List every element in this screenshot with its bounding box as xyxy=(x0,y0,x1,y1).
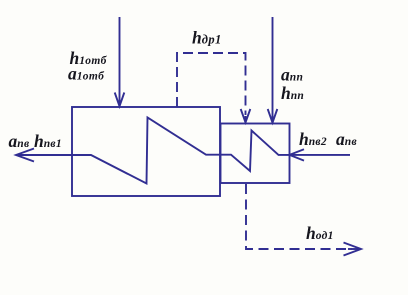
svg-text:aпв: aпв xyxy=(336,129,357,149)
svg-text:hод1: hод1 xyxy=(306,223,334,243)
svg-text:hпв2: hпв2 xyxy=(299,129,327,149)
svg-text:aпп: aпп xyxy=(281,65,303,85)
svg-text:hпп: hпп xyxy=(281,83,304,103)
svg-text:aпв: aпв xyxy=(9,131,30,151)
svg-text:hдр1: hдр1 xyxy=(192,28,222,48)
svg-text:hпв1: hпв1 xyxy=(34,131,62,151)
